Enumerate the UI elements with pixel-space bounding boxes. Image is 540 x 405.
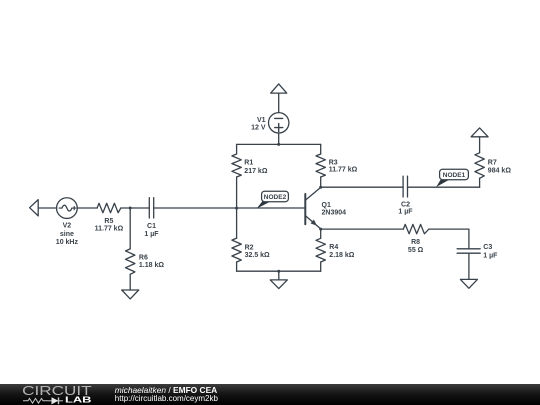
svg-text:R4: R4 (329, 244, 338, 251)
node junction emitter (319, 228, 322, 231)
label C1 1uF (144, 223, 159, 238)
label R1 217 kOhm (244, 160, 268, 175)
label R4 2.18 kOhm (329, 244, 354, 259)
label C3 1uF (483, 244, 498, 259)
wire R1 bottom to base node (236, 177, 238, 208)
wire input to V2 (38, 207, 56, 209)
svg-text:1 µF: 1 µF (144, 231, 159, 238)
resistor R1 (232, 154, 241, 177)
resistor R8 (403, 224, 429, 233)
resistor R2 (232, 238, 241, 262)
svg-text:217 kΩ: 217 kΩ (244, 168, 268, 175)
label R2 32.5 kOhm (245, 244, 270, 258)
svg-text:http://circuitlab.com/ceym2kb: http://circuitlab.com/ceym2kb (115, 394, 219, 403)
wire collector to C2 (321, 186, 403, 188)
svg-text:2N3904: 2N3904 (322, 209, 347, 216)
logo diode (48, 400, 63, 402)
wire C2 to R7 (408, 186, 480, 188)
svg-text:C3: C3 (483, 244, 492, 251)
svg-text:R8: R8 (411, 239, 420, 246)
wire ground stem center (278, 271, 280, 280)
capacitor C2 (403, 176, 407, 197)
wire R2 bottom (236, 262, 238, 271)
node junction bottom rail (277, 270, 280, 273)
wire R6 top (129, 208, 131, 249)
ground center (270, 280, 287, 289)
node junction top rail (277, 143, 280, 146)
wire R3 bottom to collector node (320, 177, 322, 187)
label Q1 2N3904 (322, 202, 347, 216)
svg-text:NODE1: NODE1 (443, 172, 466, 179)
svg-text:NODE2: NODE2 (264, 194, 287, 201)
wire R2 top from base node (236, 208, 238, 238)
ground right (460, 279, 477, 288)
power flag VCC above V1 (271, 84, 287, 93)
wire bottom rail (237, 270, 321, 272)
svg-text:R1: R1 (244, 160, 253, 167)
wire R7 top (479, 137, 481, 153)
wire R4 top from emitter node (320, 229, 322, 238)
footer bar (0, 384, 540, 405)
svg-text:R2: R2 (245, 244, 254, 251)
power flag VCC above R7 (471, 128, 488, 137)
svg-text:sine: sine (60, 231, 74, 238)
wire top rail (237, 143, 321, 145)
wire V1 bottom stem (278, 133, 280, 144)
resistor R5 (97, 203, 121, 212)
wire R7 bottom (479, 178, 481, 187)
wire R4 bottom (320, 262, 322, 271)
label V2 sine 10 kHz (56, 223, 79, 247)
svg-text:Q1: Q1 (322, 202, 331, 209)
node junction base/divider (235, 207, 238, 210)
svg-text:R7: R7 (488, 160, 497, 167)
label R3 11.77 kOhm (329, 159, 358, 173)
svg-text:1.18 kΩ: 1.18 kΩ (139, 262, 164, 269)
transistor Q1 (305, 187, 320, 229)
svg-text:32.5 kΩ: 32.5 kΩ (245, 252, 270, 259)
capacitor C3 (457, 249, 480, 253)
svg-text:11.77 kΩ: 11.77 kΩ (329, 167, 358, 174)
label R6 1.18 kOhm (139, 255, 164, 269)
svg-text:V1: V1 (257, 117, 266, 124)
svg-text:1 µF: 1 µF (398, 209, 413, 216)
wire R6 bottom (129, 274, 131, 290)
svg-text:2.18 kΩ: 2.18 kΩ (329, 252, 354, 259)
svg-text:984 kΩ: 984 kΩ (488, 168, 512, 175)
svg-text:R6: R6 (139, 255, 148, 262)
wire C1 to base (154, 207, 306, 209)
svg-text:C1: C1 (147, 223, 156, 230)
node junction collector (319, 186, 322, 189)
node flag NODE1 (436, 169, 468, 187)
resistor R4 (316, 238, 325, 262)
svg-text:11.77 kΩ: 11.77 kΩ (95, 226, 124, 233)
resistor R7 (475, 153, 484, 179)
svg-text:10 kHz: 10 kHz (56, 239, 79, 246)
svg-text:V2: V2 (63, 223, 72, 230)
logo resistor zigzag (23, 397, 63, 404)
wire R3 top (320, 144, 322, 154)
node junction input (129, 207, 132, 210)
svg-text:55 Ω: 55 Ω (408, 247, 424, 254)
wire R1 top (236, 144, 238, 154)
voltage source V1 (269, 113, 289, 133)
node flag NODE2 (257, 191, 289, 208)
wire emitter to R8 (321, 228, 404, 230)
svg-text:1 µF: 1 µF (483, 252, 498, 259)
label C2 1uF (398, 202, 413, 216)
wire R5 to C1 (121, 207, 150, 209)
wire V1 top stem (278, 93, 280, 113)
ground left (122, 290, 139, 299)
label R5 11.77 kOhm (95, 218, 124, 233)
svg-text:LAB: LAB (65, 396, 92, 405)
input flag terminal (30, 200, 39, 216)
svg-text:R3: R3 (329, 159, 338, 166)
wire C3 bottom (468, 253, 470, 279)
label R7 984 kOhm (488, 160, 512, 175)
resistor R6 (126, 249, 135, 274)
label V1 (251, 117, 266, 132)
svg-text:12 V: 12 V (251, 125, 266, 132)
wire R8 to C3 corner (429, 229, 469, 249)
wire V2 to R5 (77, 207, 97, 209)
label R8 55 Ohm (408, 239, 424, 254)
svg-text:C2: C2 (401, 202, 410, 209)
capacitor C1 (149, 198, 153, 218)
voltage source V2 (57, 198, 78, 219)
svg-text:R5: R5 (104, 218, 113, 225)
resistor R3 (316, 154, 325, 177)
